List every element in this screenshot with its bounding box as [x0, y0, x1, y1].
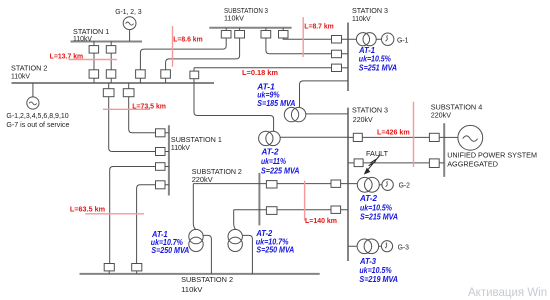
wire generator stub STATION 2 [32, 83, 34, 97]
breaker SS1-3 [156, 163, 166, 171]
watermark [468, 287, 547, 299]
transformer AT-2 110/220 STATION 3 [259, 131, 281, 145]
transformer AT-2 SUBSTATION 2 [228, 229, 242, 251]
wire line L=140km SUBSTATION 2 to STATION 3 circuit 2 [234, 209, 348, 211]
label FAULT [366, 149, 388, 158]
label L=426 km [377, 128, 410, 137]
svg-text:110kV: 110kV [181, 285, 203, 294]
generator G-2 [382, 179, 393, 190]
svg-text:AT-2: AT-2 [359, 194, 377, 203]
label G-2 [399, 181, 410, 190]
breaker ST3-H [332, 64, 342, 71]
wire line L=140km SUBSTATION 2 to STATION 3 circuit 1 [193, 183, 357, 185]
label L=8.7 km [304, 22, 334, 31]
breaker SS1-4 [156, 181, 166, 189]
wire SUBSTATION 4 bus to unified power system generator [444, 136, 458, 138]
breaker S1-B1 [106, 46, 116, 54]
svg-text:S=215 MVA: S=215 MVA [360, 212, 398, 221]
svg-text:uk=10.5%: uk=10.5% [359, 266, 392, 275]
svg-text:AT-3: AT-3 [359, 257, 376, 266]
label STATION 2 [11, 64, 47, 81]
length marker line L=426 km [413, 102, 415, 167]
svg-text:220kV: 220kV [431, 110, 452, 119]
wire transformer AT-2 to STATION 3 220kV bus [280, 136, 348, 138]
label UNIFIED POWER SYSTEM AGGREGATED [447, 151, 537, 169]
svg-text:G-2: G-2 [399, 181, 410, 190]
svg-text:110kV: 110kV [11, 71, 31, 80]
breaker SS3-4 [279, 28, 289, 38]
breaker ST3-R [331, 206, 341, 213]
breaker S2-G [123, 83, 134, 97]
label AT-1 SUBSTATION 2 parameters [151, 230, 190, 255]
breaker S2-D [161, 70, 171, 78]
svg-text:S=219 MVA: S=219 MVA [359, 275, 398, 284]
label STATION 1 [73, 27, 109, 43]
svg-text:L=140 km: L=140 km [305, 216, 337, 225]
bus SUBSTATION 4 220kV [443, 123, 445, 177]
wire faulted line STATION 3 to SUBSTATION 4 [348, 162, 444, 164]
svg-text:uk=11%: uk=11% [261, 157, 287, 166]
wire STATION 2 through AT-2 path [194, 79, 274, 132]
bus STATION 3 220kV [347, 108, 349, 261]
wire transformer AT-1 to SUBSTATION 2 110kV bus [203, 235, 211, 274]
bus STATION 2 110kV [12, 82, 215, 84]
breaker SS4-L [429, 133, 439, 141]
wire breaker H to STATION 3 bus [342, 67, 349, 69]
bus STATION 3 110kV [347, 23, 349, 92]
generator G-1..10 STATION 2 [27, 97, 39, 109]
label AT-3 G-3 parameters [359, 257, 398, 284]
svg-text:L=73,5 km: L=73,5 km [132, 102, 166, 111]
transformer AT-1 SUBSTATION 2 [189, 229, 203, 251]
svg-text:S=185 MVA: S=185 MVA [257, 99, 295, 108]
wire line SUBSTATION 3 to STATION 2 circuit 1 [140, 38, 226, 83]
transformer AT-2 220kV G-2 [357, 177, 379, 192]
breaker ST3-M [354, 159, 363, 167]
label L=140 km [305, 216, 337, 225]
svg-text:G-1: G-1 [397, 35, 409, 44]
breaker S2-F [103, 83, 114, 97]
svg-text:AGGREGATED: AGGREGATED [447, 160, 498, 169]
svg-text:110kV: 110kV [224, 14, 245, 23]
svg-text:L=8.7 km: L=8.7 km [304, 22, 334, 31]
label G-3 [398, 242, 409, 251]
bus SUBSTATION 2 110kV [80, 273, 320, 275]
wire line L=426km STATION 3 to SUBSTATION 4 [348, 136, 444, 138]
breaker S1-A2 [89, 70, 99, 78]
svg-text:L=13.7 km: L=13.7 km [50, 52, 84, 61]
svg-text:uk=10.5%: uk=10.5% [360, 203, 393, 212]
svg-text:uk=10.5%: uk=10.5% [359, 55, 392, 64]
bus SUBSTATION 2 220kV [258, 173, 260, 226]
length marker line L=8.6 km [172, 26, 174, 67]
wire line SUBSTATION 3 to STATION 2 circuit 2 [166, 38, 240, 83]
svg-text:UNIFIED POWER SYSTEM: UNIFIED POWER SYSTEM [447, 151, 537, 160]
label generators G-1..10 note [6, 111, 69, 129]
svg-text:S=225 MVA: S=225 MVA [261, 166, 300, 175]
breaker SS1-2 [156, 148, 166, 156]
svg-text:uk=9%: uk=9% [257, 91, 280, 100]
svg-text:L=8.6 km: L=8.6 km [173, 35, 203, 44]
label AT-2 SUBSTATION 2 parameters [255, 229, 294, 255]
breaker SS2b-2 [132, 264, 142, 274]
generator G-1,2,3 [123, 17, 136, 30]
label AT-2 STATION 3 parameters [261, 147, 300, 175]
wire SUBSTATION 2 220kV right drop to transformer AT-2 [234, 210, 236, 230]
breaker SS3-1 [221, 28, 231, 38]
svg-text:L=63.5 km: L=63.5 km [70, 204, 106, 213]
length marker line L=73,5 km [103, 108, 149, 110]
breaker SS2b-1 [104, 264, 114, 274]
wire STATION 1 feeder B [110, 41, 112, 83]
breaker SS3-3 [261, 28, 271, 38]
generator unified power system aggregated [458, 125, 483, 150]
svg-text:L=0.18 km: L=0.18 km [242, 68, 279, 77]
breaker S2-C [136, 70, 146, 78]
breaker ST3-P [331, 180, 341, 187]
wire STATION 1 feeder A [93, 41, 95, 83]
svg-text:110kV: 110kV [171, 143, 191, 152]
label SUBSTATION 2 220kV [192, 167, 242, 184]
svg-text:G-1, 2, 3: G-1, 2, 3 [115, 7, 141, 16]
breaker S1-A1 [89, 46, 99, 54]
bus STATION 1 110kV [71, 41, 143, 43]
svg-text:S=250 MVA: S=250 MVA [151, 246, 189, 255]
transformer AT-3 220kV G-3 [357, 239, 379, 254]
svg-text:Активация Win: Активация Win [468, 287, 547, 299]
transformer AT-1 110/220 STATION 3 [284, 107, 306, 121]
label STATION 3 110kV [352, 6, 388, 23]
svg-text:S=250 MVA: S=250 MVA [256, 246, 294, 255]
wire transformer AT-1 to STATION 3 220kV bus [306, 113, 348, 115]
label G-1, 2, 3 [115, 7, 141, 16]
breaker ST3-J [332, 36, 342, 44]
svg-text:FAULT: FAULT [366, 149, 388, 158]
svg-text:SUBSTATION 2: SUBSTATION 2 [181, 275, 233, 284]
transformer AT-1 110kV G-1 [356, 33, 376, 46]
label SUBSTATION 2 110kV [181, 275, 233, 294]
wire STATION 2 to SUBSTATION 1 circuit 1 [129, 97, 169, 133]
breaker SS2-O [266, 181, 277, 188]
length marker line L=140 km [304, 181, 306, 221]
breaker SS2-Q [266, 207, 277, 215]
wire SUBSTATION 2 220kV left drop to transformer AT-1 [193, 184, 196, 230]
length marker line L=63.5 km [85, 213, 144, 215]
generator G-3 [381, 241, 392, 252]
label STATION 3 220kV [352, 105, 388, 124]
label L=63.5 km [70, 204, 106, 213]
breaker SS4-N [429, 159, 439, 168]
wire line L=0.18km STATION 2 to STATION 3 [194, 68, 332, 71]
svg-text:220kV: 220kV [353, 115, 374, 124]
breaker SS3-2 [235, 28, 245, 38]
label SUBSTATION 3 [224, 6, 268, 23]
wire transformer AT-2 to G-2 [379, 184, 382, 186]
svg-text:220kV: 220kV [192, 175, 214, 184]
wire line SUBSTATION 3 to STATION 3 circuit 2 [283, 38, 348, 39]
label SUBSTATION 1 [171, 135, 222, 152]
wire STATION 3 bus to transformer AT-1 G-1 [348, 38, 382, 40]
breaker ST3-K [353, 133, 362, 141]
svg-text:G-3: G-3 [398, 242, 409, 251]
label L=13.7 km [50, 52, 84, 61]
breaker S1-B2 [106, 70, 116, 78]
bus SUBSTATION 1 110kV [168, 125, 170, 195]
label L=0.18 km [242, 68, 279, 77]
svg-text:110kV: 110kV [73, 34, 93, 43]
length marker line L=13.7 km [69, 59, 117, 61]
breaker S2-E [190, 71, 199, 79]
label AT-2 G-2 parameters [359, 194, 398, 221]
svg-text:S=251 MVA: S=251 MVA [359, 64, 397, 73]
wire SUBSTATION 1 to SUBSTATION 2 circuit 2 [137, 185, 169, 264]
wire generator G-1,2,3 to STATION 1 bus [129, 30, 131, 42]
length marker line L=8.7 km [302, 17, 304, 57]
label SUBSTATION 4 [431, 103, 483, 120]
wire SUBSTATION 1 to SUBSTATION 2 circuit 1 [110, 167, 169, 264]
wire line SUBSTATION 3 to STATION 3 circuit 1 [266, 38, 348, 54]
svg-text:STATION 3: STATION 3 [352, 105, 388, 114]
label L=8.6 km [173, 35, 203, 44]
label L=73,5 km [132, 102, 166, 111]
svg-text:G-7 is out of service: G-7 is out of service [6, 120, 69, 129]
label AT-1 STATION 3 parameters [256, 82, 295, 108]
generator G-1 [382, 33, 394, 45]
wire STATION 3 110kV to transformer AT-1 [300, 81, 349, 108]
svg-text:110kV: 110kV [352, 14, 372, 23]
wire transformer AT-2 to SUBSTATION 2 110kV bus [242, 235, 252, 274]
svg-text:L=426 km: L=426 km [377, 128, 410, 137]
bus SUBSTATION 3 110kV [209, 27, 291, 29]
label G-1 [397, 35, 409, 44]
wire STATION 2 to SUBSTATION 1 circuit 2 [109, 97, 169, 152]
fault lightning arrow [364, 155, 380, 175]
label AT-1 G-1 parameters [358, 46, 397, 72]
wire STATION 3 220kV bus to transformer AT-3 [348, 245, 381, 247]
svg-text:AT-2: AT-2 [261, 147, 279, 156]
breaker ST3-I [332, 50, 342, 58]
breaker SS1-1 [156, 129, 166, 137]
